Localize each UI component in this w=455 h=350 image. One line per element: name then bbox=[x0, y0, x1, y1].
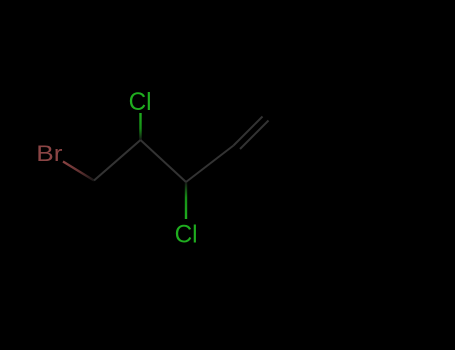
bond C3-Cl (bottom) bbox=[185, 182, 187, 219]
bond C1-Br bbox=[63, 162, 94, 181]
svg-text:Br: Br bbox=[36, 141, 62, 166]
svg-text:Cl: Cl bbox=[175, 221, 198, 249]
bond C4=C5 line 1 bbox=[234, 117, 263, 146]
svg-text:Cl: Cl bbox=[129, 88, 152, 116]
bond C3-C4 bbox=[186, 146, 234, 183]
bond C4=C5 line 2 bbox=[240, 121, 269, 150]
bond C2-C3 bbox=[141, 140, 187, 182]
bond C2-Cl (top) bbox=[139, 113, 141, 140]
bond C1-C2 bbox=[94, 140, 141, 181]
